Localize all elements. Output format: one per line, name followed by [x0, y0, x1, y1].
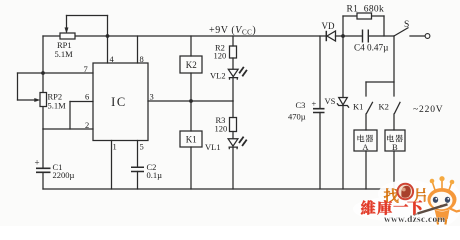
svg-text:0.1µ: 0.1µ: [147, 170, 163, 180]
watermark text 维库一下 red: [361, 200, 422, 215]
wire left column down to C1: [42, 129, 44, 168]
resistor R1: [357, 13, 372, 19]
load box B: [385, 130, 405, 151]
wire top rail diode to C4: [336, 35, 363, 37]
wire C1 to bottom rail: [42, 173, 44, 190]
svg-text:K2: K2: [186, 60, 197, 70]
junction dot RP1 loop on rail: [106, 34, 110, 38]
resistor R3: [230, 118, 237, 132]
diode VD triangle: [327, 31, 336, 41]
wire pin 2 line: [43, 128, 93, 130]
svg-text:R1 680k: R1 680k: [347, 5, 385, 15]
relay coil K2 box: [180, 56, 202, 73]
LED VL2: [228, 69, 238, 80]
wire R3 to VL1: [232, 132, 234, 139]
resistor R2: [230, 46, 237, 58]
relay coil K1 box: [180, 131, 202, 147]
svg-text:+: +: [35, 158, 40, 168]
wire pin 7 line: [43, 72, 93, 74]
wire RP2 wiper loop arrow run: [18, 99, 36, 101]
svg-text:VL2: VL2: [210, 71, 226, 81]
svg-text:2200µ: 2200µ: [53, 170, 75, 180]
zener diode VS bar: [337, 103, 349, 107]
wire pin 5 lead to C2: [137, 141, 139, 168]
svg-text:5.1M: 5.1M: [55, 49, 74, 59]
wire K1 coil bottom lead: [190, 147, 192, 189]
wire pin 3 line: [148, 100, 233, 102]
wire pin 6 line: [70, 101, 93, 103]
svg-text:6: 6: [85, 92, 89, 102]
load box A: [354, 130, 377, 151]
wire R1 loop top right: [372, 15, 385, 17]
svg-text:www.dzsc.com: www.dzsc.com: [384, 215, 445, 225]
svg-text:K2: K2: [379, 102, 389, 112]
resistor RP1 wiper arrow: [65, 28, 68, 34]
watermark mascot head: [428, 188, 457, 211]
wire R1 loop right leg: [383, 16, 385, 36]
wire load A to bottom rail: [365, 151, 367, 189]
wire R3 top lead: [232, 101, 234, 118]
junction dot K coils on pin3 line: [189, 99, 193, 103]
watermark red ball with fist: [397, 183, 415, 201]
wire C3 bottom lead: [319, 113, 321, 190]
svg-text:+: +: [312, 99, 317, 109]
wire RP2 wiper loop left leg: [17, 73, 19, 100]
junction dot pin7-RP2 node: [41, 71, 45, 75]
wire load B to bottom rail: [393, 151, 395, 189]
svg-text:VS: VS: [325, 96, 336, 106]
wire R2 top lead: [232, 36, 234, 46]
svg-text:S: S: [404, 20, 409, 30]
wire K2 coil bottom lead: [190, 73, 192, 101]
svg-text:5: 5: [140, 142, 144, 152]
capacitor C2: [131, 167, 144, 171]
label load A 电器A: [357, 135, 364, 142]
LED VL2 emission arrows: [239, 67, 244, 73]
watermark halo background: [353, 180, 460, 226]
wire RP1 loop right leg: [107, 16, 109, 37]
wire C2 to bottom rail: [137, 172, 139, 190]
svg-text:2: 2: [85, 120, 89, 130]
wire pin 8 lead: [137, 36, 139, 63]
wire VL2 to pin3 line: [232, 78, 234, 101]
wire K2 coil top lead: [190, 36, 192, 56]
svg-text:VL1: VL1: [205, 142, 221, 152]
wire R1 loop left leg: [342, 16, 344, 36]
svg-text:C3: C3: [296, 100, 306, 110]
svg-text:1: 1: [113, 142, 117, 152]
watermark logo glyph 找: [384, 188, 398, 202]
wire R2 to VL2: [232, 58, 234, 69]
svg-text:K1: K1: [186, 135, 197, 145]
switch S terminal circle: [425, 34, 430, 39]
zener diode VS triangle: [339, 98, 348, 105]
wire top rail left segment: [43, 35, 60, 37]
svg-text:120: 120: [214, 51, 227, 61]
svg-text:VD: VD: [322, 21, 335, 31]
svg-text:5.1M: 5.1M: [48, 101, 67, 111]
wire top rail C4 to switch node: [369, 35, 395, 37]
watermark mascot crown: [414, 176, 460, 224]
label load B 电器B: [387, 135, 394, 142]
svg-text:120: 120: [215, 123, 228, 133]
svg-text:C4 0.47µ: C4 0.47µ: [354, 43, 388, 53]
watermark mascot pen: [418, 204, 448, 213]
wire pin6-to-pin2 vertical: [69, 102, 71, 130]
wire VL1 to bottom rail: [232, 148, 234, 190]
wire RP2 bottom lead to pin2 line: [42, 107, 44, 130]
svg-text:7: 7: [84, 64, 88, 74]
svg-text:A: A: [362, 142, 369, 152]
wire R1 loop top left: [343, 15, 357, 17]
watermark logo glyph 片: [414, 188, 426, 201]
watermark mascot arm: [450, 209, 460, 212]
capacitor C3 electrolytic: [313, 109, 325, 113]
junction dot VD-R1-VS node: [341, 34, 345, 38]
relay contact K1 blade: [366, 102, 373, 114]
capacitor C1 electrolytic: [36, 168, 51, 172]
watermark mascot body: [435, 210, 450, 221]
LED VL1 emission arrows: [239, 137, 244, 143]
wire K1 contact upper lead: [365, 82, 367, 96]
svg-text:IC: IC: [111, 95, 127, 109]
LED VL1: [228, 139, 238, 150]
svg-text:470µ: 470µ: [288, 112, 306, 122]
relay contact K2 blade: [394, 102, 400, 114]
switch S blade: [394, 28, 409, 37]
svg-text:3: 3: [150, 92, 154, 102]
wire K1 contact lower lead: [365, 114, 367, 130]
diode VD cathode bar: [325, 31, 327, 41]
svg-text:B: B: [392, 142, 398, 152]
capacitor C4 series: [363, 30, 369, 43]
wire RP2 top lead: [42, 73, 44, 93]
wire VS top lead from junction: [342, 36, 344, 98]
svg-text:~220V: ~220V: [413, 105, 444, 115]
wire contact feed horizontal: [366, 81, 394, 83]
wire RP1 wiper loop top: [67, 15, 108, 17]
wire left column down to pin7 node: [42, 36, 44, 73]
wire RP1 wiper riser: [66, 16, 68, 28]
resistor RP2 wiper arrow: [35, 98, 40, 101]
IC U1 box: [93, 63, 148, 141]
resistor RP1: [60, 33, 75, 39]
svg-text:8: 8: [140, 54, 144, 64]
wire C3 top lead from rail: [319, 36, 321, 109]
wire switch column down: [393, 36, 395, 96]
wire RP2 wiper loop left from node: [18, 72, 44, 74]
wire pin 1 lead to bottom rail: [111, 141, 113, 190]
wire VS bottom lead: [342, 106, 344, 189]
wire bottom rail: [43, 188, 394, 190]
wire K1 coil top lead: [190, 101, 192, 131]
resistor RP2: [40, 93, 47, 107]
wire top rail main segment: [75, 35, 326, 37]
svg-text:K1: K1: [353, 102, 363, 112]
wire K2 contact lower lead: [393, 114, 395, 130]
wire pin 4 lead: [107, 36, 109, 63]
wire switch fixed contact lead: [410, 35, 425, 37]
